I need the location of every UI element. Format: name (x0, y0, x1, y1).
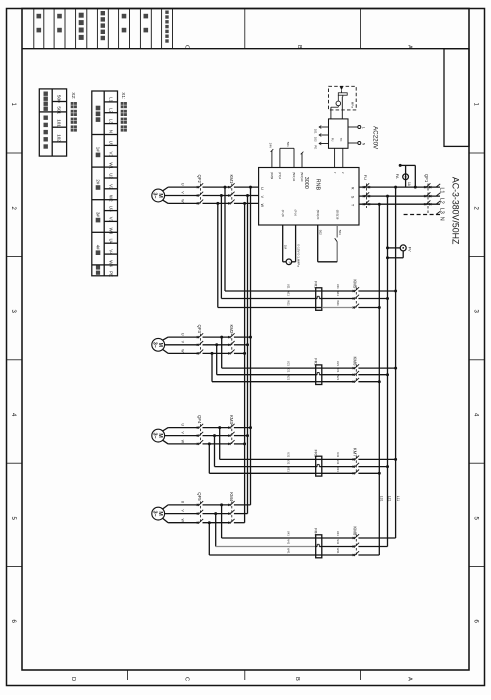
FR4 box (316, 535, 322, 558)
wire W3 seg1 (168, 443, 198, 445)
wire L3 (359, 203, 440, 205)
contactor KM1 (228, 186, 230, 188)
FR4 wire1 left (222, 537, 316, 539)
FR4 wire3 left (209, 554, 315, 556)
svg-text:R: R (350, 187, 354, 190)
bus L31 vertical (378, 204, 380, 555)
join vertical FR4 a (221, 505, 223, 538)
wire end hook (436, 184, 440, 187)
junction FV-L21 (386, 246, 389, 249)
control box (329, 119, 349, 148)
FA fuse wire (405, 165, 407, 187)
KM5 wire1 to bus (358, 290, 395, 292)
KM7 wire1 to bus (358, 458, 395, 460)
breaker QF3 (197, 336, 199, 338)
junction tap (249, 186, 252, 189)
QF2 linkage (199, 184, 201, 204)
svg-text:U11: U11 (287, 284, 291, 289)
junction bus2 (386, 297, 389, 300)
wire to RNB U (234, 186, 259, 188)
AC220V terminal N (348, 142, 358, 144)
wire to RNB V (234, 195, 259, 197)
svg-text:U21: U21 (287, 361, 291, 367)
junction tap (243, 442, 246, 445)
join vertical FR2 c (211, 353, 213, 381)
svg-text:W11: W11 (287, 300, 291, 306)
P wire 2 (295, 225, 297, 262)
zone tick bottom (127, 670, 129, 680)
svg-text:U31: U31 (287, 452, 291, 458)
junction bus2 (386, 373, 389, 376)
svg-text:1#: 1# (96, 147, 101, 152)
wire U1 seg2 (203, 186, 230, 188)
zone tick right (469, 462, 485, 464)
FR2 wire3 mid (322, 381, 354, 383)
svg-text:501: 501 (57, 106, 62, 114)
svg-text:V11: V11 (287, 291, 291, 296)
X2 table outline (39, 89, 66, 156)
motor M4 (152, 507, 165, 520)
svg-text:3~: 3~ (152, 342, 158, 348)
svg-text:KM8: KM8 (353, 526, 358, 535)
breaker QF4 (197, 427, 199, 429)
KM5 wire2 to bus (358, 298, 387, 300)
title block box (empty) (444, 49, 469, 147)
KTZ wire 1 (317, 225, 319, 262)
svg-text:QF1: QF1 (424, 174, 429, 183)
wire to tap W (234, 522, 245, 524)
ctrl stub (319, 126, 329, 128)
junction bus3 (378, 472, 381, 475)
junction tap (246, 343, 249, 346)
svg-text:102: 102 (57, 134, 62, 142)
potentiometer resistor (338, 93, 347, 95)
KTZ wire 2b (336, 242, 338, 262)
wire U4 seg1 (168, 504, 198, 506)
FR1 wire3 left (218, 307, 316, 309)
svg-text:503: 503 (338, 230, 342, 235)
svg-text:3#: 3# (96, 212, 101, 217)
svg-text:D: D (70, 677, 76, 681)
field: old base-map no. (101, 11, 105, 15)
wire V3 seg2 (203, 435, 230, 437)
wire to tap U (234, 504, 251, 506)
svg-text:QF3: QF3 (197, 325, 202, 334)
junction bus3 (378, 306, 381, 309)
svg-text:W21: W21 (336, 374, 340, 380)
FV wire (388, 247, 401, 249)
svg-text:V21: V21 (336, 367, 340, 372)
KM7 linkage (355, 456, 357, 473)
zone tick left (7, 152, 23, 154)
svg-text:U: U (260, 187, 264, 190)
zone tick left (7, 359, 23, 361)
KM6 wire2 to bus (358, 374, 387, 376)
svg-text:L2: L2 (438, 198, 444, 204)
FV return left (388, 257, 404, 259)
junction tap (246, 434, 249, 437)
svg-text:KM5: KM5 (353, 279, 358, 288)
svg-text:A: A (407, 45, 413, 49)
wire N dashed (404, 214, 440, 216)
svg-text:(503)18: (503)18 (335, 210, 339, 220)
motor M3 (152, 429, 165, 442)
contactor KM4 (228, 504, 230, 506)
zone tick left (7, 255, 23, 257)
join vertical FR1 a (224, 187, 226, 291)
wire to tap W (234, 443, 245, 445)
svg-text:3~: 3~ (152, 433, 158, 439)
join vertical FR3 c (208, 444, 210, 473)
X1 table outline (92, 91, 118, 276)
break tick (271, 149, 274, 152)
KM7 wire3 to bus (358, 472, 379, 474)
FR1 wire3 mid (322, 307, 354, 309)
FR4 wire3 mid (322, 554, 354, 556)
svg-text:(502)20: (502)20 (316, 210, 320, 220)
FR1 box (316, 288, 322, 311)
breaker QF2 (197, 186, 199, 188)
svg-text:N: N (109, 130, 114, 133)
svg-text:W41: W41 (287, 548, 291, 554)
KM1 linkage (231, 184, 233, 204)
junction bus L11 tap (394, 186, 397, 189)
svg-text:W41: W41 (336, 548, 340, 554)
contactor KM3 (228, 427, 230, 429)
remote gauge box (329, 86, 357, 110)
FA right wire (414, 165, 416, 187)
svg-text:W31: W31 (336, 466, 340, 472)
svg-text:U41: U41 (287, 531, 291, 537)
X2 column divider (51, 89, 53, 156)
FR3 box (316, 456, 322, 476)
tap vertical 1 (250, 187, 252, 505)
svg-text:W: W (260, 204, 264, 208)
svg-text:V11: V11 (336, 291, 340, 296)
zone tick right (469, 359, 485, 361)
tap vertical 3 (244, 203, 246, 522)
contactor KM7 (353, 458, 355, 460)
junction bus L21 tap (386, 195, 389, 198)
svg-text:FR4: FR4 (314, 528, 319, 536)
svg-text:RNB: RNB (315, 179, 321, 191)
svg-text:(YX)4: (YX)4 (278, 172, 282, 180)
svg-text:U21: U21 (336, 361, 340, 367)
gauge elbow (331, 106, 338, 108)
FR3 wire2 left (215, 466, 316, 468)
KM5 linkage (355, 288, 357, 308)
KM8 wire3 to bus (358, 554, 379, 556)
QF3 linkage (199, 334, 201, 354)
svg-text:(1M)9: (1M)9 (270, 172, 274, 180)
FR2 wire3 left (212, 381, 316, 383)
tap vertical 2 (247, 196, 249, 514)
join vertical FR1 c (217, 203, 219, 307)
svg-text:L21: L21 (388, 496, 392, 502)
svg-text:KM1: KM1 (229, 175, 234, 184)
junction tap (249, 336, 252, 339)
RNB3000 outline (259, 168, 359, 226)
svg-text:(501)11: (501)11 (292, 172, 296, 182)
gauge wire a (337, 95, 339, 101)
svg-text:FU: FU (331, 138, 335, 142)
zone tick bottom (359, 670, 361, 680)
junction bus L31 tap (378, 203, 381, 206)
FR2 wire2 left (217, 374, 316, 376)
svg-text:L11: L11 (396, 496, 400, 502)
wire V1 seg2 (203, 195, 230, 197)
KM8 linkage (355, 535, 357, 556)
zone tick left (7, 566, 23, 568)
FR3 wire1 mid (322, 458, 354, 460)
wire W2 seg1 (168, 352, 198, 354)
svg-text:B: B (294, 677, 300, 681)
junction tap (243, 352, 246, 355)
wire to tap V (234, 435, 248, 437)
breaker QF1 (424, 186, 426, 188)
contactor KM8 (353, 537, 355, 539)
wire L2 (359, 195, 440, 197)
FR3 wire1 left (220, 458, 316, 460)
wire to tap U (234, 336, 251, 338)
wire end hook (436, 211, 440, 214)
svg-text:(P+)8: (P+)8 (281, 210, 285, 217)
stub pin4 (279, 148, 281, 167)
FR1 wire2 left (221, 298, 315, 300)
FA fuse circle (403, 174, 409, 180)
svg-text:2#: 2# (96, 179, 101, 184)
join vertical FR4 c (208, 523, 210, 555)
FR2 wire2 mid (322, 374, 354, 376)
KM7 wire2 to bus (358, 466, 387, 468)
svg-text:4#: 4# (96, 245, 101, 250)
wire W4 seg2 (203, 522, 230, 524)
KTZ contact blade (335, 238, 338, 242)
svg-text:102: 102 (313, 137, 317, 142)
svg-text:QF4: QF4 (197, 415, 202, 424)
junction bus3 (378, 380, 381, 383)
transducer P circle (286, 259, 292, 265)
stub pin10 (301, 153, 303, 168)
svg-text:X1:: X1: (120, 92, 126, 99)
KM2 linkage (231, 334, 233, 354)
FV return down (402, 251, 404, 258)
svg-text:101: 101 (57, 119, 62, 127)
KM6 linkage (355, 365, 357, 382)
svg-text:V41: V41 (336, 539, 340, 544)
svg-text:502: 502 (319, 230, 323, 235)
svg-text:500: 500 (57, 95, 62, 103)
KM4 linkage (231, 501, 233, 522)
wire W4 seg1 (168, 522, 198, 524)
zone divider top 2 (359, 9, 361, 49)
svg-text:PE: PE (313, 145, 317, 149)
svg-text:C: C (184, 677, 190, 681)
FA top wire (400, 164, 415, 166)
ctrl stub (319, 143, 329, 145)
junction tap (246, 194, 249, 197)
contactor KM6 (353, 367, 355, 369)
join vertical FR3 a (219, 428, 221, 460)
join vertical FR2 b (216, 345, 218, 375)
svg-text:KM3: KM3 (229, 415, 234, 424)
title strip bottom line (22, 48, 469, 50)
wire to tap V (234, 513, 248, 515)
field: date (37, 14, 42, 19)
svg-text:501: 501 (286, 142, 290, 147)
QF5 linkage (199, 501, 201, 522)
FV circle (400, 245, 406, 251)
svg-text:S: S (350, 196, 354, 199)
zone tick right (469, 152, 485, 154)
FR4 wire2 mid (322, 546, 354, 548)
wire to tap U (234, 427, 251, 429)
svg-text:C: C (184, 45, 190, 49)
wire V2 seg2 (203, 344, 230, 346)
FR2 wire1 left (222, 367, 316, 369)
wire V4 seg2 (203, 513, 230, 515)
wire V4 seg1 (165, 513, 199, 515)
svg-text:0-10V 0-1.6MPa: 0-10V 0-1.6MPa (297, 244, 301, 267)
join vertical FR3 b (214, 436, 216, 467)
join vertical FR1 b (220, 196, 222, 299)
svg-text:FR1: FR1 (314, 281, 319, 289)
wire W1 seg1 (168, 202, 198, 204)
wire to RNB W (234, 202, 259, 204)
svg-text:W1: W1 (109, 162, 114, 169)
svg-text:1M: 1M (284, 245, 288, 250)
contactor KM2 (228, 336, 230, 338)
svg-text:L1: L1 (438, 187, 444, 193)
svg-text:3~: 3~ (152, 511, 158, 517)
svg-text:W2: W2 (109, 195, 114, 202)
X1 column divider (103, 91, 105, 276)
junction FA-L1 (414, 186, 417, 189)
svg-text:W4: W4 (109, 260, 114, 267)
svg-text:L3: L3 (438, 208, 444, 214)
svg-text:(P-)6: (P-)6 (294, 210, 298, 217)
wire U2 seg2 (203, 336, 230, 338)
link pin4-pin11 (280, 147, 294, 149)
svg-text:N: N (438, 217, 444, 221)
svg-text:FA: FA (395, 174, 400, 179)
stub pin9 (271, 151, 273, 168)
zone tick left (7, 462, 23, 464)
terminal circle N (358, 142, 361, 145)
field: signature 2 (122, 14, 127, 19)
KTZ bottom link (318, 261, 338, 263)
KM6 wire1 to bus (358, 367, 395, 369)
svg-text:A: A (407, 677, 413, 681)
wire to tap V (234, 344, 248, 346)
FR3 wire3 left (209, 472, 315, 474)
svg-text:B: B (296, 45, 302, 49)
FR1 wire2 mid (322, 298, 354, 300)
title block field columns (33, 9, 35, 49)
KM6 wire3 to bus (358, 381, 379, 383)
svg-text:24V: 24V (269, 143, 273, 148)
FR3 wire2 mid (322, 466, 354, 468)
svg-text:FR3: FR3 (314, 450, 319, 458)
svg-text:(500)10: (500)10 (300, 172, 304, 182)
wire V2 seg1 (165, 344, 199, 346)
field: change record (165, 11, 168, 14)
FR4 wire1 mid (322, 537, 354, 539)
svg-text:AC220V: AC220V (371, 126, 378, 150)
FR4 wire2 left (216, 546, 316, 548)
gauge circle (336, 101, 341, 106)
FR3 wire3 mid (322, 472, 354, 474)
wire to tap W (234, 352, 245, 354)
svg-text:FU: FU (363, 175, 368, 180)
field: signature (57, 14, 62, 19)
P bottom link (292, 261, 296, 263)
motor M1 (152, 189, 165, 202)
FR2 box (316, 365, 322, 385)
svg-text:MPa: MPa (350, 102, 354, 109)
junction FV return (386, 256, 389, 259)
svg-text:QF2: QF2 (197, 175, 202, 184)
svg-text:3~: 3~ (152, 193, 158, 199)
fuses FU on R S T (363, 186, 365, 188)
FU linkage (365, 184, 367, 209)
svg-text:101: 101 (313, 129, 317, 134)
svg-text:KM6: KM6 (353, 357, 358, 366)
KM5 wire3 to bus (358, 307, 379, 309)
gauge-ctrl wire 1 (330, 107, 332, 119)
KM3 linkage (231, 424, 233, 444)
svg-text:W11: W11 (336, 300, 340, 306)
join vertical FR4 b (215, 514, 217, 547)
zone tick right (469, 255, 485, 257)
bus L11 vertical (395, 187, 397, 538)
gauge-ctrl wire 2 (341, 97, 343, 119)
wire U1 seg1 (168, 186, 198, 188)
FA top node (399, 164, 402, 167)
X2 label: pressure signal (44, 92, 48, 96)
svg-text:FV: FV (407, 247, 412, 252)
QF4 linkage (199, 424, 201, 444)
svg-text:KM2: KM2 (229, 325, 234, 334)
wire end hook (436, 201, 440, 204)
break tick 2 (301, 152, 304, 155)
terminal circle L (358, 126, 361, 129)
wire L1 (359, 186, 440, 188)
svg-text:AC-3-380V/50HZ: AC-3-380V/50HZ (451, 177, 461, 245)
junction bus1 (394, 290, 397, 293)
zone tick right (469, 566, 485, 568)
junction tap (243, 202, 246, 205)
zone tick bottom (244, 670, 246, 680)
junction bus1 (394, 458, 397, 461)
svg-text:W21: W21 (287, 374, 291, 380)
svg-text:V31: V31 (336, 459, 340, 464)
svg-text:KM7: KM7 (353, 448, 358, 457)
AC220V terminal L (348, 126, 358, 128)
wire W1 seg2 (203, 202, 230, 204)
bus L21 vertical (387, 196, 389, 546)
svg-text:U41: U41 (336, 531, 340, 537)
svg-text:KM4: KM4 (229, 492, 234, 501)
KM8 wire1 to bus (358, 537, 395, 539)
wire U2 seg1 (168, 336, 198, 338)
wire V1 seg1 (165, 195, 199, 197)
svg-text:U11: U11 (336, 284, 340, 289)
svg-text:X2:: X2: (70, 92, 76, 99)
svg-text:FR2: FR2 (314, 358, 319, 366)
breaker QF5 (197, 504, 199, 506)
stub pin11 (293, 148, 295, 167)
